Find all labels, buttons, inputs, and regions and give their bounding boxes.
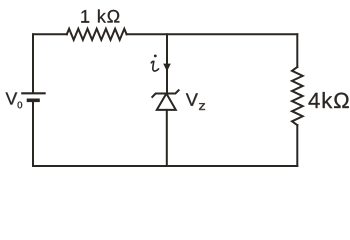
label battery: V0 [6, 92, 23, 108]
label R2 value: 4 kOhm [309, 92, 349, 108]
wire top-right segment (R1 to top-right corner node) [127, 33, 298, 35]
wire right-top segment (corner down to R2) [296, 34, 298, 67]
current arrow i (arrowhead on middle wire) [163, 64, 171, 72]
wire bottom segment (bottom rail) [33, 165, 297, 167]
wire top-left segment (from battery node to R1) [33, 33, 67, 35]
wire left-bottom segment (bottom-left corner up to battery minus plate) [32, 102, 34, 167]
battery plus plate (long thin) [21, 92, 46, 94]
resistor R2 (4 kOhm, vertical zigzag) [292, 67, 303, 125]
zener anode triangle [157, 94, 176, 110]
label R1 value: 1 kOhm [81, 9, 119, 22]
label zener: Vz [186, 93, 205, 109]
battery minus plate (short thick) [27, 99, 40, 103]
zener cathode bar [152, 90, 178, 97]
battery V0 (voltage source) [21, 93, 46, 100]
wire left-top segment (battery plus plate up to top-left corner) [32, 34, 34, 92]
label current: i [151, 55, 158, 72]
zener diode D1 (cathode bar with bent tails + triangle) [152, 90, 178, 110]
wire right-bottom segment (R2 to bottom-right corner) [296, 125, 298, 166]
resistor R1 (1 kOhm, horizontal zigzag) [67, 29, 127, 40]
wire middle-bottom segment (zener anode down to bottom rail) [166, 110, 168, 166]
wire middle-top segment (top rail junction down to zener cathode) [166, 34, 168, 92]
